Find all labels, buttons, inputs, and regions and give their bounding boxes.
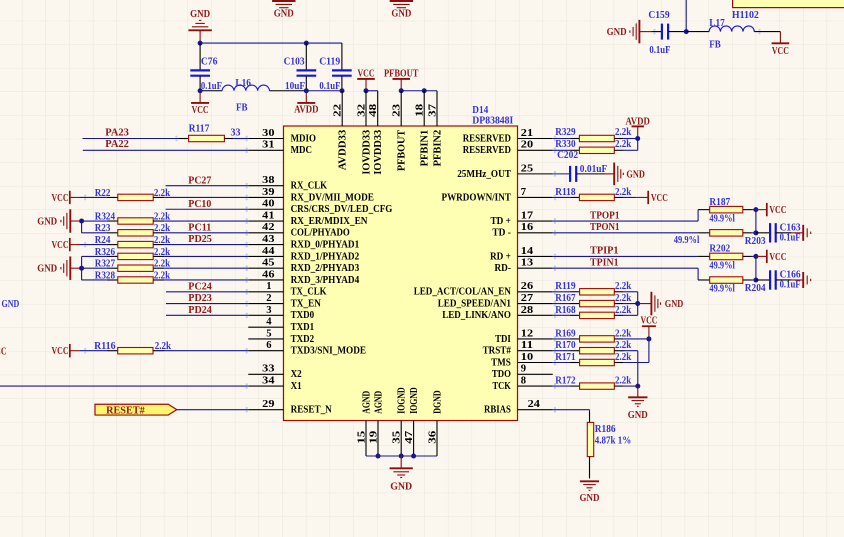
resistor R202 [698,244,752,272]
svg-text:PA23: PA23 [105,126,129,138]
ground GND left of C159 [607,20,652,43]
svg-text:PD25: PD25 [188,233,212,245]
wire VCC to R22 [80,196,107,198]
wire R22 to pin [164,196,248,198]
wire R167 to GND node [623,303,640,305]
svg-text:C159: C159 [648,10,669,21]
svg-text:VCC: VCC [641,315,658,327]
wire vertical into C159 node [685,0,687,32]
svg-text:PC10: PC10 [188,198,211,210]
junction [304,41,309,46]
svg-text:LED_LINK/ANO: LED_LINK/ANO [442,310,511,321]
svg-text:2.2k: 2.2k [615,187,631,198]
svg-text:43: 43 [262,233,275,245]
svg-text:10: 10 [521,351,534,363]
svg-text:2.2k: 2.2k [615,328,631,339]
D14 pin 35 [391,421,403,457]
D14 pin 3 [248,304,283,316]
svg-text:VCC: VCC [769,204,786,216]
wire R171 to VCC rail [623,339,649,363]
wire R170 corner down [620,351,638,386]
wire pin12 to R169 [553,338,571,340]
wire pin26 to R119 [553,291,571,293]
ground GND top-right-of-IC (cut) [390,1,413,20]
resistor R167 [555,293,631,307]
junction [340,88,345,93]
svg-text:AGND: AGND [361,390,372,413]
svg-text:VCC: VCC [651,192,668,204]
svg-text:RX_DV/MII_MODE: RX_DV/MII_MODE [291,192,374,203]
svg-text:TPIP1: TPIP1 [590,245,619,257]
svg-text:39: 39 [262,186,275,198]
svg-text:GND: GND [37,263,57,275]
junction [646,336,651,341]
svg-text:FB: FB [709,40,721,51]
svg-text:45: 45 [262,257,275,269]
wire VCC to R116 [80,350,107,352]
wire top rail y=43 [200,42,342,44]
D14 pin 33 [248,363,283,375]
svg-text:PFBIN1: PFBIN1 [420,130,431,167]
wire R330 to AVDD node [623,149,637,151]
svg-text:2: 2 [266,292,272,304]
svg-text:10uF: 10uF [285,81,305,92]
resistor R118 [555,187,631,201]
svg-text:24: 24 [528,398,541,410]
junction [198,41,203,46]
svg-text:TX_EN: TX_EN [291,299,322,310]
resistor R168 [555,305,631,319]
power VCC right of R187 [756,203,787,216]
svg-text:R24: R24 [95,235,111,246]
resistor R187 [698,197,752,225]
svg-text:GND: GND [628,409,648,421]
ground right of C166 [792,272,811,288]
power VCC right of R118 [636,191,668,204]
wire PC24 [166,291,248,293]
D14 pin 4 [248,316,283,328]
sheet part H1102 (cut) [732,0,844,21]
junction [753,277,758,282]
junction [635,136,640,141]
svg-text:2.2k: 2.2k [615,293,631,304]
svg-text:44: 44 [262,245,275,257]
D14 pin 11 [518,339,553,351]
svg-text:RXD_1/PHYAD2: RXD_1/PHYAD2 [291,251,360,262]
D14 pin 1 [248,280,283,292]
wire pin23-pin37 [401,90,437,92]
svg-text:AGND: AGND [373,390,384,413]
svg-text:R119: R119 [555,281,575,292]
svg-text:RESET#: RESET# [106,404,145,416]
wire GND node vertical 2 [82,256,107,280]
svg-text:32: 32 [355,103,367,117]
svg-text:RXD_3/PHYAD4: RXD_3/PHYAD4 [291,275,360,286]
svg-text:R171: R171 [555,352,575,363]
D14 pin 25 [518,162,553,174]
svg-text:R168: R168 [555,305,575,316]
wire R204 to node [752,279,756,281]
power VCC right of L17 [772,32,790,57]
svg-text:R167: R167 [555,293,575,304]
D14 pin 19 [367,421,379,457]
junction [304,88,309,93]
svg-text:19: 19 [367,430,379,444]
svg-text:GND: GND [37,215,57,227]
inductor L16 [200,78,306,113]
svg-text:COL/PHYADO: COL/PHYADO [291,228,350,239]
svg-text:PFBIN2: PFBIN2 [432,130,443,167]
svg-text:DP83848I: DP83848I [472,114,513,126]
D14 pin 38 [248,174,283,186]
svg-text:11: 11 [521,339,533,351]
capacitor C76 [190,43,222,92]
svg-text:0.1uF: 0.1uF [780,280,801,291]
svg-text:16: 16 [521,221,534,233]
power VCC above TDI rail [641,315,658,339]
junction [198,88,203,93]
wire R116 to pin6 [164,350,248,352]
power VCC at R22 [52,191,81,204]
wire PC27 [166,185,249,187]
svg-text:12: 12 [521,327,534,339]
D14 pin 30 [248,127,283,139]
svg-text:34: 34 [262,375,275,387]
power GND at R326/R327/R328 [37,256,81,280]
svg-text:IOGND: IOGND [409,387,420,414]
power VCC right of R202 [756,250,787,263]
svg-text:X1: X1 [291,381,302,392]
svg-text:IOGND: IOGND [397,387,408,414]
svg-text:25: 25 [521,162,534,174]
resistor R329 [555,127,631,142]
wire R326 to pin [164,255,248,257]
wire pin7 to R118 [553,196,571,198]
junction [635,384,640,389]
wire PA22 [83,149,248,151]
wire pin21 to R329 [553,138,571,140]
power AVDD below C103 [294,91,318,116]
wire pin8 to R172 [553,385,571,387]
svg-text:41: 41 [262,209,274,221]
wire pin27 to R167 [553,303,571,305]
resistor R327 [95,259,171,272]
D14 pin 6 [248,339,283,351]
wire R328 to pin [164,279,248,281]
svg-text:RX_CLK: RX_CLK [291,181,328,192]
D14 pin 32 [355,91,367,126]
svg-text:21: 21 [521,127,533,139]
D14 pin 41 [248,209,283,221]
ground GND top-left [188,8,211,43]
svg-text:6: 6 [266,339,272,351]
resistor R22 [95,188,171,201]
wire pin28 to R168 [553,314,571,316]
wire pin32-pin48 [366,90,378,92]
svg-text:4: 4 [266,316,272,328]
svg-text:9: 9 [521,363,527,375]
svg-text:PA22: PA22 [105,138,129,150]
D14 pin 48 [367,91,379,126]
svg-text:R327: R327 [95,259,115,270]
svg-text:TXD3/SNI_MODE: TXD3/SNI_MODE [291,346,367,357]
svg-text:L17: L17 [709,18,725,29]
junction [364,88,369,93]
D14 pin 36 [426,421,438,457]
svg-text:49.9%l: 49.9%l [674,235,700,246]
resistor R116 [94,341,171,354]
wire R23 to pin [164,232,248,234]
svg-text:TXD2: TXD2 [291,334,315,345]
svg-text:RD-: RD- [495,263,512,274]
D14 pin 28 [518,304,553,316]
wire pin20 to R330 [553,149,571,151]
svg-text:0.1uF: 0.1uF [780,233,801,244]
svg-text:PD23: PD23 [188,292,212,304]
svg-text:LED_SPEED/AN1: LED_SPEED/AN1 [438,299,511,310]
svg-text:PWRDOWN/INT: PWRDOWN/INT [442,192,511,203]
wire R203 to node [752,232,756,234]
resistor R203 [674,230,766,247]
D14 pin 27 [518,292,553,304]
svg-text:2.2k: 2.2k [615,340,631,351]
capacitor C163 [756,223,801,244]
junction [411,454,416,459]
svg-text:R187: R187 [709,197,730,208]
wire R187 to node [752,209,756,211]
svg-text:TD -: TD - [492,228,511,239]
capacitor C103 [284,43,317,92]
svg-text:31: 31 [262,139,274,151]
wire pin24 to R186 [553,410,590,412]
svg-text:R326: R326 [95,247,115,258]
inductor L17 [686,18,780,50]
D14 pin 45 [248,257,283,269]
junction [399,88,404,93]
svg-text:C119: C119 [319,56,340,67]
svg-text:42: 42 [262,221,275,233]
D14 pin 23 [391,91,403,126]
svg-text:49.9%l: 49.9%l [709,214,735,225]
wire PC10 [166,208,249,210]
D14 pin 39 [248,186,283,198]
artifact dots [84,29,761,413]
svg-text:2.2k: 2.2k [615,305,631,316]
svg-text:TX_CLK: TX_CLK [291,287,328,298]
wire AVDD rail y=90.75 [306,90,342,92]
svg-text:RXD_0/PHYAD1: RXD_0/PHYAD1 [291,240,360,251]
resistor R119 [555,281,631,295]
capacitor C166 [756,270,801,291]
svg-text:GND: GND [2,299,20,310]
power VCC below C76 [191,91,209,116]
svg-text:PC27: PC27 [188,174,211,186]
wire GND node vertical [82,221,107,233]
port RESET# [95,404,177,416]
svg-text:PD24: PD24 [188,304,212,316]
D14 pin 42 [248,221,283,233]
svg-text:R172: R172 [555,376,575,387]
svg-text:R22: R22 [95,188,111,199]
wire R118 to VCC [623,196,636,198]
svg-text:14: 14 [521,245,534,257]
svg-text:47: 47 [403,430,415,444]
ground right of C163 [792,225,811,241]
D14 pin 8 [518,375,553,387]
wire AVDD node vertical [637,139,639,151]
svg-text:46: 46 [262,268,275,280]
svg-text:25MHz_OUT: 25MHz_OUT [457,169,511,180]
svg-text:R118: R118 [555,187,575,198]
svg-text:GND: GND [665,298,684,310]
svg-text:VCC: VCC [52,192,69,204]
ground GND right of C202 [603,163,645,186]
svg-text:4.87k 1%: 4.87k 1% [595,436,632,447]
svg-text:VCC: VCC [358,68,375,80]
svg-text:GND: GND [274,8,294,20]
wire VCC to R24 [80,244,107,246]
wire bottom GND bus [366,455,437,457]
D14 pin 34 [248,375,283,387]
D14 pin 17 [518,209,553,221]
capacitor C159 [648,10,686,56]
svg-text:28: 28 [521,304,534,316]
wire R172 to GND node [623,385,637,387]
svg-text:GND: GND [391,8,411,20]
D14 pin 13 [518,257,553,269]
svg-text:38: 38 [262,174,275,186]
svg-text:RESERVED: RESERVED [463,145,512,156]
svg-text:40: 40 [262,198,275,210]
D14 pin 15 [355,421,367,457]
svg-text:RBIAS: RBIAS [484,405,511,416]
svg-text:PC24: PC24 [188,280,212,292]
svg-text:R203: R203 [745,236,766,247]
svg-text:IOVDD33: IOVDD33 [361,130,372,175]
svg-text:33: 33 [262,363,275,375]
svg-text:IOVDD33: IOVDD33 [373,130,384,175]
wire RD+ to R202 [553,255,698,257]
resistor R324 [95,211,171,224]
svg-text:36: 36 [426,430,438,444]
svg-text:TD +: TD + [491,216,511,227]
svg-text:20: 20 [521,139,534,151]
junction [79,219,84,224]
svg-text:0.1uF: 0.1uF [649,45,670,56]
junction [79,266,84,271]
svg-text:8: 8 [521,375,527,387]
wire TD- to R203 [553,232,698,234]
wire R329 to AVDD [623,138,637,140]
svg-text:35: 35 [391,430,403,444]
svg-text:MDIO: MDIO [291,133,316,144]
resistor R23 [95,223,171,236]
svg-text:RXD_2/PHYAD3: RXD_2/PHYAD3 [291,263,360,274]
svg-text:48: 48 [367,103,379,117]
power AVDD pullup [626,116,650,139]
svg-text:5: 5 [266,327,272,339]
svg-text:26: 26 [521,280,534,292]
D14 pin 2 [248,292,283,304]
D14 pin 5 [248,327,283,339]
D14 pin 37 [426,91,438,126]
wire TD node vertical [755,210,757,233]
svg-text:LED_ACT/COL/AN_EN: LED_ACT/COL/AN_EN [414,287,512,298]
D14 pin 16 [518,221,553,233]
svg-text:R202: R202 [709,244,730,255]
wire R202 to node [752,255,756,257]
D14 pin 22 [332,91,344,126]
junction [399,454,404,459]
resistor R171 [555,352,631,366]
svg-text:2.2k: 2.2k [615,127,631,138]
D14 pin 9 [518,363,553,375]
svg-text:R169: R169 [555,328,575,339]
ground GND below R186 [580,481,600,504]
svg-text:TPOP1: TPOP1 [590,209,620,221]
svg-text:R186: R186 [595,424,616,435]
svg-text:RX_ER/MDIX_EN: RX_ER/MDIX_EN [291,216,368,227]
svg-text:TDI: TDI [495,334,511,345]
D14 pin 12 [518,327,553,339]
svg-text:RESET_N: RESET_N [291,405,333,416]
D14 pin 7 [518,186,553,198]
svg-text:2.2k: 2.2k [615,139,631,150]
capacitor C119 [319,43,352,92]
ground GND top-middle (cut) [272,1,295,20]
resistor R204 [698,277,766,295]
wire TD+ to R187 [553,210,698,221]
svg-text:TCK: TCK [493,381,512,392]
svg-text:VCC: VCC [192,104,209,116]
D14 pin 18 [414,91,426,126]
svg-text:H1102: H1102 [732,10,759,21]
svg-text:GND: GND [607,26,627,38]
capacitor C202 [553,150,608,182]
wire R119 corner [623,292,637,304]
svg-text:R116: R116 [94,341,116,352]
resistor R330 [555,139,631,154]
svg-text:TXD0: TXD0 [291,310,315,321]
wire RESET# to pin29 [177,409,248,411]
wire X1 [0,385,248,387]
svg-text:13: 13 [521,257,534,269]
resistor R172 [555,376,631,390]
wire RD- to R204 [553,268,698,280]
D14 pin 29 [248,398,283,410]
D14 pin 10 [518,351,553,363]
svg-text:R329: R329 [555,127,575,138]
wire PD24 [166,314,248,316]
svg-text:PFBOUT: PFBOUT [384,68,419,80]
junction [753,230,758,235]
D14 pin 31 [248,139,283,151]
svg-text:MDC: MDC [291,145,312,156]
D14 pin 14 [518,245,553,257]
wire R327 to pin [164,267,248,269]
svg-text:C202: C202 [557,150,578,161]
resistor R326 [95,247,171,260]
junction [684,29,689,34]
svg-text:49.9%l: 49.9%l [709,283,735,294]
svg-text:TMS: TMS [491,357,511,368]
junction [753,207,758,212]
ic D14 DP83848I [248,91,553,456]
svg-text:R328: R328 [95,270,115,281]
D14 pin 20 [518,139,553,151]
svg-text:TDO: TDO [492,369,511,380]
power VCC above pin32 [357,68,375,91]
